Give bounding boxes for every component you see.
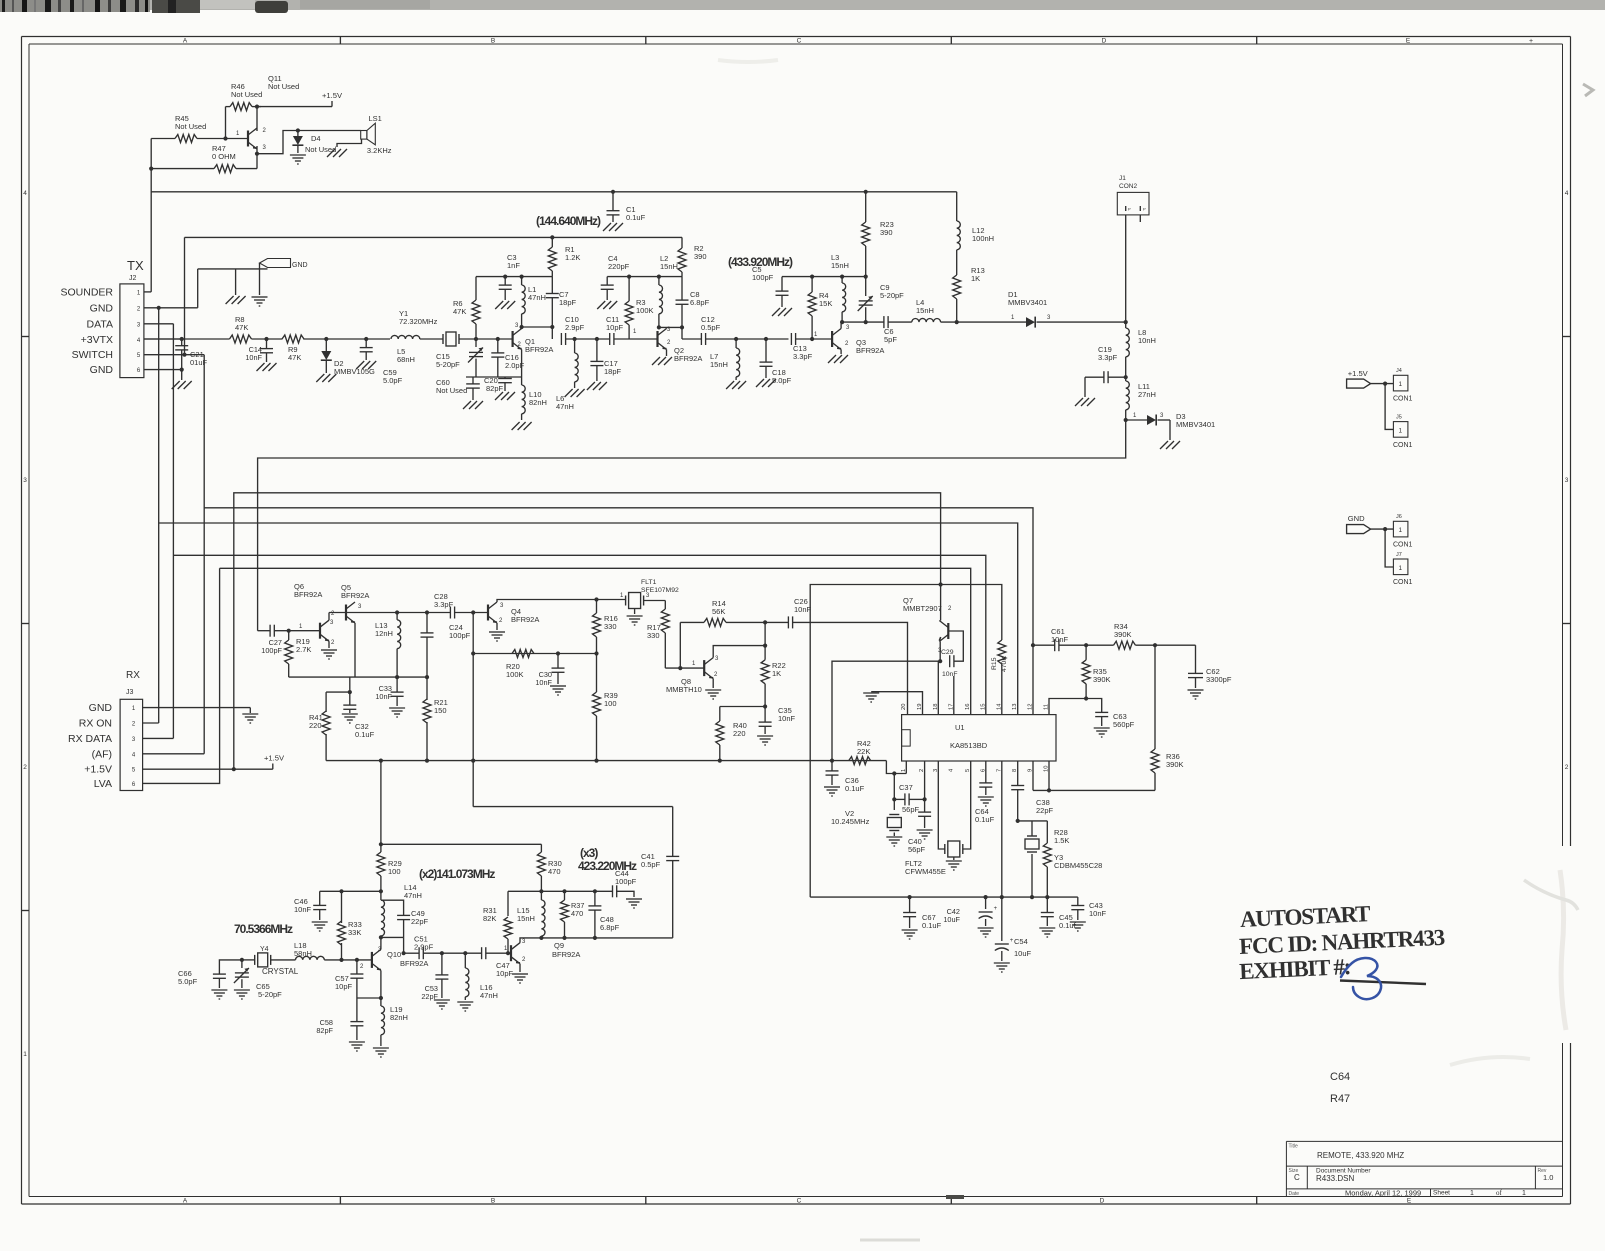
svg-text:Q9: Q9 (554, 941, 564, 950)
svg-text:19: 19 (917, 704, 923, 710)
node L11 bottom (1124, 418, 1128, 422)
wire rail y276 left (476, 276, 552, 278)
svg-text:15nH: 15nH (517, 914, 535, 923)
wire C61 line y645 (1033, 644, 1055, 646)
svg-text:3300pF: 3300pF (1206, 675, 1232, 684)
ground below L10 (512, 422, 520, 430)
svg-text:6.8pF: 6.8pF (690, 298, 710, 307)
zone ticks left (22, 336, 30, 338)
svg-text:(144.640MHz): (144.640MHz) (536, 214, 601, 228)
wire to Q6 base (289, 630, 320, 632)
svg-text:1K: 1K (971, 274, 980, 283)
svg-text:0.1uF: 0.1uF (626, 213, 646, 222)
svg-text:BFR92A: BFR92A (552, 950, 580, 959)
node pin12/C61 (1031, 643, 1035, 647)
wire Q4 emitter to ground (496, 623, 498, 630)
J3 pin5 stub +1.5V wire (143, 768, 273, 770)
svg-text:BFR92A: BFR92A (400, 959, 428, 968)
trimmer capacitor C9 (865, 277, 867, 296)
U1 pin6 / capacitor C64 (985, 761, 987, 783)
filter FLT2 CFWM455E (948, 841, 960, 857)
wire rail y276 right (607, 276, 682, 278)
node pin2/bus (157, 306, 161, 310)
scan artifact band top (0, 0, 1605, 10)
capacitor C20 (504, 377, 506, 378)
svg-text:A: A (183, 38, 188, 45)
svg-text:100K: 100K (506, 670, 524, 679)
capacitor C6 series (883, 316, 885, 328)
svg-text:D: D (1100, 1198, 1105, 1205)
capacitor C16 (497, 339, 499, 353)
node C8 bottom (680, 325, 684, 329)
svg-text:18: 18 (933, 704, 939, 710)
svg-text:LVA: LVA (94, 778, 112, 790)
node D2 (324, 337, 328, 341)
ground below L16 (457, 1001, 473, 1003)
capacitor C18 (765, 339, 767, 362)
node L18/R33 (339, 958, 343, 962)
node pin5/B2 (232, 767, 236, 771)
svg-text:10pF: 10pF (496, 969, 514, 978)
svg-text:+1.5V: +1.5V (264, 754, 285, 763)
diode D1 (1026, 317, 1035, 327)
wire rail C5 y276 (782, 276, 866, 278)
wire Q6 collector to line1 (328, 613, 330, 621)
inductor L10 (521, 377, 523, 385)
inductor L4 (912, 318, 941, 322)
svg-text:560pF: 560pF (1113, 720, 1135, 729)
wire bus B7 Vcc loop (810, 585, 1002, 898)
node R4 top (810, 275, 814, 279)
svg-text:C29: C29 (941, 649, 954, 656)
svg-text:100K: 100K (636, 306, 654, 315)
node C27/R19 (287, 629, 291, 633)
capacitor C51 series (418, 947, 420, 959)
svg-text:R47: R47 (1330, 1093, 1350, 1105)
U1 pin8 / C38 / Y3 / R28 (1017, 761, 1019, 785)
svg-text:U1: U1 (955, 723, 965, 732)
wire FLT1 pin3 to R17 (644, 600, 666, 602)
wire RX lower rail y677 (289, 676, 427, 678)
svg-text:10.245MHz: 10.245MHz (831, 817, 870, 826)
capacitor C40 (924, 799, 926, 812)
svg-text:1: 1 (1522, 1190, 1526, 1197)
svg-text:47K: 47K (288, 353, 301, 362)
svg-text:3.3pF: 3.3pF (434, 600, 454, 609)
capacitor C42 electrolytic (985, 897, 987, 909)
wire TX main line (144, 338, 230, 340)
zone ticks bottom (339, 1197, 341, 1205)
svg-text:E: E (1407, 1198, 1412, 1205)
ground below C65 (234, 989, 250, 991)
svg-text:470: 470 (571, 909, 583, 918)
svg-text:47K: 47K (235, 323, 248, 332)
ground below L7 (726, 381, 734, 389)
inductor L3 (841, 277, 843, 283)
power +1.5V (RX) (272, 764, 274, 770)
svg-text:1: 1 (1399, 428, 1403, 435)
wire rail1 y192 (151, 191, 957, 193)
svg-text:3: 3 (1565, 477, 1569, 484)
svg-text:J4: J4 (1396, 368, 1402, 374)
ground below D4 (290, 154, 306, 156)
wire pin1 node to C37 (893, 774, 895, 800)
trimmer capacitor C65 (241, 960, 243, 968)
svg-text:SWITCH: SWITCH (72, 349, 113, 361)
node R23 top (864, 190, 868, 194)
transistor Q9 (510, 945, 512, 961)
capacitor C66 (213, 973, 226, 975)
svg-text:P: P (1143, 207, 1146, 212)
svg-text:Y4: Y4 (260, 946, 269, 953)
resistor R20 (512, 650, 534, 658)
svg-text:Date: Date (1289, 1191, 1300, 1197)
svg-text:15nH: 15nH (710, 360, 728, 369)
node R1 top (550, 235, 554, 239)
wire sub-rail under Q1 (466, 376, 522, 378)
wire osc out rail y937 (541, 937, 672, 939)
wire C44 to ground (617, 891, 634, 897)
node Y4 left (240, 958, 244, 962)
svg-text:+1.5V: +1.5V (84, 764, 112, 776)
svg-text:RX DATA: RX DATA (68, 733, 112, 745)
svg-text:3.2KHz: 3.2KHz (367, 146, 392, 155)
svg-text:47nH: 47nH (480, 991, 498, 1000)
svg-text:15nH: 15nH (916, 306, 934, 315)
svg-text:R433.DSN: R433.DSN (1316, 1174, 1354, 1183)
capacitor C17 (596, 339, 598, 361)
svg-text:MMBT2907: MMBT2907 (903, 604, 942, 613)
wire R31 row y891 (508, 890, 541, 892)
resistor R8 (230, 335, 252, 343)
wire Q9 collector (520, 938, 541, 943)
wire GND-net vertical from pin2 (197, 269, 199, 308)
svg-text:0.5pF: 0.5pF (701, 323, 721, 332)
svg-text:1: 1 (1399, 381, 1403, 388)
wire Q3 collector (840, 322, 842, 328)
svg-text:GND: GND (89, 702, 113, 714)
capacitor C41 on vertical (672, 807, 674, 857)
svg-text:10uF: 10uF (943, 915, 960, 924)
svg-text:MMBV3401: MMBV3401 (1176, 420, 1215, 429)
U1 pin2 stub (924, 761, 926, 799)
wire flag to J4 (1371, 383, 1394, 385)
capacitor C60 (Not Used) (472, 377, 474, 384)
wire rail3 y844 (381, 843, 542, 845)
resistor R13 (956, 250, 958, 275)
svg-text:MMBTH10: MMBTH10 (666, 685, 702, 694)
svg-text:100: 100 (604, 699, 617, 708)
capacitor C12 series (700, 333, 702, 345)
node R30 bottom (539, 889, 543, 893)
node R14/C26/R22 (763, 620, 767, 624)
ground below L6 (565, 389, 573, 397)
node Q7 collector/C29 (938, 659, 942, 663)
node R36 top (1153, 643, 1157, 647)
resistor R41 (325, 692, 327, 712)
resistor R35 (1085, 645, 1087, 660)
svg-text:15K: 15K (819, 299, 832, 308)
svg-text:1.5K: 1.5K (1054, 836, 1069, 845)
svg-text:GND: GND (90, 364, 114, 376)
svg-text:Not Used: Not Used (175, 122, 206, 131)
svg-text:C: C (1294, 1173, 1300, 1182)
wire bus B3 (203, 355, 205, 754)
svg-text:C37: C37 (899, 783, 913, 792)
ground below C67 (902, 929, 918, 931)
svg-text:FLT1: FLT1 (641, 579, 657, 586)
transistor Q5 (345, 605, 347, 621)
node rail3 left (379, 842, 383, 846)
svg-text:10nF: 10nF (375, 692, 392, 701)
wire bus B4 (158, 308, 160, 723)
wire Q8 emitter to ground (712, 679, 714, 688)
svg-text:C64: C64 (1330, 1071, 1350, 1083)
ground below C46 (312, 921, 328, 923)
svg-text:22K: 22K (857, 747, 870, 756)
svg-text:100pF: 100pF (615, 877, 637, 886)
capacitor C47 series (481, 947, 483, 959)
svg-text:220: 220 (733, 729, 746, 738)
svg-text:5-20pF: 5-20pF (436, 360, 460, 369)
ground below C53 (434, 999, 450, 1001)
ground below FLT1 (634, 608, 636, 614)
net label GND bubble (260, 259, 291, 268)
node Q11 emitter (255, 152, 259, 156)
node C17 (595, 337, 599, 341)
svg-text:5pF: 5pF (884, 335, 897, 344)
svg-text:56pF: 56pF (902, 805, 920, 814)
svg-text:1.2K: 1.2K (565, 253, 580, 262)
svg-text:BFR92A: BFR92A (856, 346, 884, 355)
svg-text:10pF: 10pF (335, 982, 353, 991)
node R16 top (594, 597, 598, 601)
svg-text:P: P (1128, 207, 1131, 212)
wire pin17 stub (953, 676, 955, 715)
wire rail jog to pin1 (886, 761, 906, 774)
node C59 (364, 337, 368, 341)
IC U1 KA8513BD body (902, 715, 1056, 761)
svg-text:390: 390 (694, 252, 707, 261)
svg-text:(AF): (AF) (92, 748, 112, 760)
svg-text:330: 330 (647, 631, 660, 640)
resistor R6 (475, 277, 477, 300)
connector J2 body (120, 284, 144, 378)
resistor R37 (564, 891, 566, 900)
wire return line B1 (258, 420, 1126, 631)
capacitor C13 series (790, 333, 792, 345)
resistor R1 (551, 237, 553, 247)
svg-text:220pF: 220pF (608, 262, 630, 271)
trimmer capacitor C15 (475, 339, 477, 347)
ground below C40 (917, 829, 933, 831)
svg-text:0.1uF: 0.1uF (355, 730, 375, 739)
wire GND-net horizontal (198, 268, 268, 270)
svg-text:47nH: 47nH (528, 293, 546, 302)
J2 pin3 stub (144, 323, 174, 325)
capacitor C3 (504, 277, 506, 285)
svg-text:RX: RX (126, 670, 140, 681)
svg-text:22pF: 22pF (411, 917, 429, 926)
svg-text:B: B (491, 1198, 495, 1205)
svg-text:C: C (797, 1198, 802, 1205)
wire R14 bias vertical (679, 622, 681, 668)
svg-text:BFR92A: BFR92A (511, 615, 539, 624)
node C18 (764, 337, 768, 341)
ground below C43 (1070, 921, 1086, 923)
wire Q3 emitter to ground (840, 350, 842, 355)
capacitor C19 series (1103, 371, 1105, 383)
capacitor C53 (441, 953, 443, 975)
node C14 (264, 337, 268, 341)
capacitor C37 series (904, 793, 906, 805)
handwritten blue 3 (1341, 958, 1381, 999)
wire Q1 emitter (521, 350, 523, 378)
svg-text:27nH: 27nH (1138, 390, 1156, 399)
svg-text:0 OHM: 0 OHM (212, 152, 236, 161)
svg-text:Not Used: Not Used (231, 90, 262, 99)
wire R22 top to C26 line (764, 622, 766, 645)
svg-text:470: 470 (548, 867, 561, 876)
svg-text:14: 14 (996, 703, 1002, 710)
wire Q10 base line (342, 959, 372, 961)
capacitor C44 series (612, 885, 614, 897)
wire collector line y327 (522, 326, 553, 328)
svg-text:1.0: 1.0 (1543, 1173, 1553, 1182)
capacitor C67 (909, 897, 911, 912)
transistor Q1 (511, 331, 513, 347)
svg-text:72.320MHz: 72.320MHz (399, 317, 438, 326)
resistor R17 (664, 601, 666, 610)
capacitor C61 series (1054, 639, 1056, 651)
ground below C62 (1188, 689, 1204, 691)
resistor R45 (151, 138, 175, 140)
wire to D3 (1126, 419, 1147, 421)
svg-text:0.1uF: 0.1uF (922, 921, 942, 930)
resistor R39 (596, 654, 598, 693)
node C16/Q1 base (496, 337, 500, 341)
wire to R40 (720, 706, 765, 708)
svg-text:D4: D4 (311, 134, 321, 143)
ground at pin19 (863, 692, 879, 694)
capacitor C11 series (609, 333, 611, 345)
wire y820 to R28 (1018, 820, 1048, 822)
capacitor C7 (551, 277, 553, 294)
svg-text:+1.5V: +1.5V (322, 91, 343, 100)
wire to J5 (1385, 384, 1393, 430)
svg-text:CON1: CON1 (1393, 442, 1413, 449)
resistor R2 (681, 237, 683, 248)
svg-text:CON2: CON2 (1119, 183, 1137, 190)
wire Q4 collector line to FLT1 (497, 600, 626, 603)
wire collector to +1.5V (257, 106, 332, 108)
svg-text:CON1: CON1 (1393, 396, 1413, 403)
capacitor C45 (1046, 897, 1048, 912)
inductor L12 (956, 192, 958, 221)
svg-text:70.5366MHz: 70.5366MHz (234, 922, 293, 936)
svg-text:10nF: 10nF (778, 714, 796, 723)
svg-text:Not Used: Not Used (268, 82, 299, 91)
transistor Q7 MMBT2907 (940, 585, 942, 618)
inductor L15 (540, 891, 542, 900)
wire emitter row (357, 997, 381, 999)
inductor L18 (296, 956, 325, 960)
wire Q10 emitter (380, 970, 382, 998)
node R39 top (594, 651, 598, 655)
svg-text:2.7K: 2.7K (296, 645, 311, 654)
svg-text:330: 330 (604, 622, 617, 631)
svg-text:+1.5V: +1.5V (1348, 369, 1369, 378)
node R22 bottom (763, 704, 767, 708)
inductor L13 (396, 613, 398, 620)
svg-text:CON1: CON1 (1393, 579, 1413, 586)
svg-text:82pF: 82pF (486, 384, 504, 393)
capacitor C62 (1195, 645, 1197, 673)
node B7/Q7 (939, 582, 943, 586)
svg-text:22pF: 22pF (1036, 806, 1054, 815)
capacitor C8 (681, 277, 683, 300)
svg-text:Title: Title (1289, 1144, 1298, 1150)
wire bus B5 (172, 324, 174, 739)
wire Q2 collector line (666, 327, 668, 328)
svg-text:DATA: DATA (87, 318, 113, 330)
scan smudge marks (1524, 880, 1578, 910)
resistor R19 (288, 631, 290, 640)
node R3 top (627, 275, 631, 279)
svg-text:390: 390 (880, 228, 893, 237)
transistor Q10 (371, 952, 373, 968)
svg-text:100pF: 100pF (449, 631, 471, 640)
U1 pin1 stub (905, 761, 907, 774)
svg-text:GND: GND (292, 262, 308, 269)
node Q11 base (223, 136, 227, 140)
svg-text:100pF: 100pF (261, 646, 282, 655)
U1 pin11 wire (1049, 699, 1086, 715)
svg-text:+: + (1529, 38, 1533, 45)
node R13 bottom (955, 320, 959, 324)
connector J7 CON1 (1393, 559, 1408, 575)
zone ticks top (339, 37, 341, 45)
svg-text:E: E (1406, 38, 1411, 45)
wire C32 drop (349, 677, 351, 705)
transistor Q4 (487, 605, 489, 621)
J3 pin1 stub to ground (143, 707, 251, 709)
svg-text:3: 3 (23, 477, 27, 484)
capacitor C63 (1095, 711, 1108, 713)
resistor R42 (849, 757, 871, 765)
capacitor C32 (343, 704, 356, 706)
diode D4 (Not Used) (297, 131, 299, 137)
filter FLT1 SFE107M92 (629, 593, 641, 609)
svg-text:82K: 82K (483, 914, 496, 923)
node C38 bottom (1016, 819, 1020, 823)
svg-text:BFR92A: BFR92A (674, 354, 702, 363)
wire Q8 collector (713, 646, 765, 658)
wire C28 node vertical (472, 613, 474, 807)
wire to R41 (326, 691, 350, 693)
node Q11 collector (255, 105, 259, 109)
capacitor C35 (764, 707, 766, 723)
capacitor C1 (612, 192, 614, 211)
wire Q7 collector net (832, 661, 940, 760)
ground at D3 (1160, 441, 1168, 449)
node R23 bottom (864, 275, 868, 279)
inductor L19 (380, 998, 382, 1006)
connector J4 CON1 (1393, 375, 1408, 391)
capacitor C48 (594, 891, 596, 906)
wire RX bottom rail y760 (326, 760, 886, 762)
svg-text:5.0pF: 5.0pF (178, 977, 198, 986)
